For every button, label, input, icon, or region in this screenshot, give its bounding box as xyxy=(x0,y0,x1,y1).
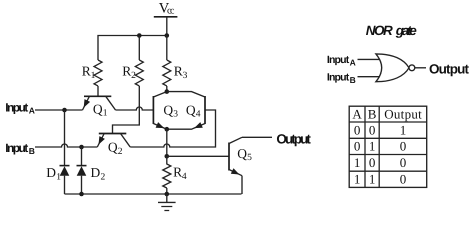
resistor R1 xyxy=(94,60,102,86)
transistor Q2 emitter xyxy=(97,134,104,148)
wire Q5 emitter to rail xyxy=(241,176,243,194)
svg-text:4: 4 xyxy=(182,172,187,182)
svg-text:1: 1 xyxy=(91,71,96,81)
svg-text:3: 3 xyxy=(173,110,178,120)
svg-text:0: 0 xyxy=(369,122,376,137)
wire Vcc top rail xyxy=(98,36,167,61)
wire gate input B xyxy=(358,76,382,78)
svg-text:5: 5 xyxy=(247,153,252,163)
svg-text:A: A xyxy=(29,106,35,116)
svg-text:1: 1 xyxy=(56,172,61,182)
wire Q1 collector to Q3 base with hop over R2 xyxy=(116,107,154,110)
wire R3 to collector node xyxy=(166,86,168,92)
transistor Q3 base bar xyxy=(152,96,154,124)
wire emitter node to R4 node xyxy=(166,129,168,156)
node D2 rail junction xyxy=(79,192,84,197)
svg-text:gate: gate xyxy=(395,23,417,38)
NOR gate body xyxy=(376,54,409,82)
wire D2 riser xyxy=(81,147,83,166)
wire R1 to Q1 base xyxy=(97,86,99,96)
svg-text:cc: cc xyxy=(167,6,175,17)
svg-text:A: A xyxy=(352,106,362,121)
diode D2 xyxy=(77,165,87,167)
svg-text:Output: Output xyxy=(429,61,470,76)
svg-text:2: 2 xyxy=(101,172,106,182)
svg-text:Input: Input xyxy=(5,101,28,115)
wire gate output xyxy=(415,67,426,69)
svg-text:Q: Q xyxy=(237,146,247,161)
svg-text:0: 0 xyxy=(369,155,376,170)
svg-text:D: D xyxy=(91,165,101,180)
wire D1 riser xyxy=(64,110,66,166)
svg-text:1: 1 xyxy=(354,155,361,170)
node R3 collector junction xyxy=(165,89,170,94)
node ground junction xyxy=(165,192,170,197)
svg-text:Q: Q xyxy=(93,101,103,116)
wire gate input A xyxy=(358,58,382,60)
wire R3 riser xyxy=(166,36,168,61)
svg-text:0: 0 xyxy=(400,155,407,170)
transistor Q1 collector xyxy=(106,96,116,110)
ground symbol xyxy=(158,194,176,211)
svg-text:2: 2 xyxy=(131,71,136,81)
transistor Q3 collector xyxy=(153,92,166,97)
svg-text:Input: Input xyxy=(327,54,350,66)
power Vcc bar xyxy=(154,16,178,18)
transistor Q1 base bar xyxy=(84,95,111,97)
svg-text:R: R xyxy=(173,165,182,180)
resistor R4 xyxy=(163,156,171,194)
wire Vcc riser xyxy=(166,17,168,36)
wire R2 riser xyxy=(138,36,140,61)
transistor Q2 base bar xyxy=(99,133,127,135)
transistor Q4 collector xyxy=(167,92,205,97)
node R4 Q5-base junction xyxy=(165,154,170,159)
svg-text:1: 1 xyxy=(354,171,361,186)
svg-text:A: A xyxy=(350,57,356,67)
wire Output xyxy=(242,136,272,138)
wire ground rail xyxy=(65,193,242,195)
svg-text:B: B xyxy=(29,146,35,156)
svg-text:NOR: NOR xyxy=(366,23,393,38)
svg-text:B: B xyxy=(350,75,356,85)
transistor Q5 collector xyxy=(229,137,242,143)
svg-text:R: R xyxy=(82,63,91,78)
wire InputA xyxy=(35,109,83,111)
transistor Q1 emitter xyxy=(83,96,90,110)
svg-text:Input: Input xyxy=(5,141,28,155)
transistor Q4 emitter xyxy=(167,124,205,130)
svg-text:2: 2 xyxy=(118,147,123,157)
resistor R2 xyxy=(135,60,143,86)
svg-text:0: 0 xyxy=(354,139,361,154)
transistor Q3 emitter xyxy=(153,124,166,130)
NOR gate bubble xyxy=(409,65,415,71)
svg-text:Output: Output xyxy=(384,106,422,121)
svg-text:Q: Q xyxy=(163,102,173,117)
transistor Q2 collector xyxy=(121,134,131,148)
transistor Q5 emitter xyxy=(229,170,242,176)
svg-text:D: D xyxy=(46,165,56,180)
wire Q2 collector to Q4 base with hop over emitter drop xyxy=(130,110,215,147)
wire to Q5 base xyxy=(167,155,229,157)
node InputA junction xyxy=(62,108,67,113)
transistor Q5 base bar xyxy=(228,143,230,171)
svg-text:B: B xyxy=(368,106,377,121)
resistor R3 xyxy=(163,60,171,86)
node rail-R3 junction xyxy=(165,33,170,38)
svg-text:1: 1 xyxy=(369,139,376,154)
transistor Q4 base bar xyxy=(204,96,206,124)
svg-text:R: R xyxy=(174,63,183,78)
svg-text:Input: Input xyxy=(327,71,350,83)
node InputB junction xyxy=(79,145,84,150)
svg-text:3: 3 xyxy=(183,71,188,81)
svg-text:Q: Q xyxy=(108,140,118,155)
svg-text:0: 0 xyxy=(400,171,407,186)
svg-text:1: 1 xyxy=(400,122,407,137)
svg-text:Output: Output xyxy=(276,132,311,147)
diode D1 xyxy=(60,165,70,167)
svg-text:R: R xyxy=(122,63,131,78)
node Q3Q4 emitter junction xyxy=(165,127,170,132)
truth table grid xyxy=(349,106,427,187)
node rail-R2 junction xyxy=(137,33,142,38)
svg-text:4: 4 xyxy=(196,110,201,120)
svg-text:0: 0 xyxy=(354,122,361,137)
wire InputB with hop over D1 riser xyxy=(35,144,97,147)
svg-text:0: 0 xyxy=(400,139,407,154)
svg-text:1: 1 xyxy=(369,171,376,186)
svg-text:Q: Q xyxy=(186,102,196,117)
svg-text:1: 1 xyxy=(103,109,108,119)
wire R2 to Q2 base xyxy=(113,86,140,134)
